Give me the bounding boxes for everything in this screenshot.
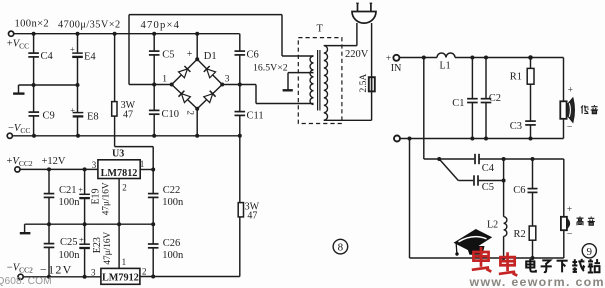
node -Vcc rail junctions xyxy=(32,134,36,138)
svg-text:R1: R1 xyxy=(510,72,522,83)
node bridge vertices xyxy=(170,83,174,87)
svg-text:2: 2 xyxy=(142,267,147,277)
svg-text:+: + xyxy=(78,185,83,195)
label tweeter 高音 xyxy=(577,216,584,225)
svg-text:C22: C22 xyxy=(163,185,181,196)
svg-text:www. eeworm. com: www. eeworm. com xyxy=(469,275,605,288)
capacitor E8 xyxy=(73,112,84,114)
capacitor C1 xyxy=(467,98,478,100)
svg-text:3: 3 xyxy=(91,268,96,278)
inductor L2 xyxy=(503,159,505,217)
svg-text:L1: L1 xyxy=(440,61,451,72)
svg-text:8: 8 xyxy=(338,242,344,254)
wire crossover mid rail xyxy=(400,138,564,140)
svg-text:C9: C9 xyxy=(43,111,55,122)
wire -12V rail xyxy=(23,276,101,278)
svg-text:2: 2 xyxy=(186,111,196,116)
svg-text:IN: IN xyxy=(391,63,402,74)
svg-text:47μ/16V: 47μ/16V xyxy=(102,182,112,215)
wire 7912 input rail xyxy=(140,276,240,278)
watermark 虫虫 red xyxy=(472,247,491,272)
speaker tweeter xyxy=(563,159,565,217)
svg-text:+: + xyxy=(70,105,75,115)
resistor R2 xyxy=(529,226,536,240)
fuse 2.5A xyxy=(371,23,373,77)
resistor 3W 47 (bleeder, upper) xyxy=(114,34,116,102)
svg-text:1: 1 xyxy=(162,75,167,85)
svg-text:100n: 100n xyxy=(59,197,81,208)
svg-text:47: 47 xyxy=(123,110,133,121)
svg-text:C2: C2 xyxy=(489,93,501,104)
terminal +Vcc2 xyxy=(15,167,20,172)
svg-text:C4: C4 xyxy=(482,163,495,174)
wire secondary center tap xyxy=(288,72,314,74)
node figure number 9 xyxy=(582,244,596,258)
svg-text:C3: C3 xyxy=(510,121,522,132)
svg-text:C5: C5 xyxy=(162,50,174,61)
wire ground spur (filter midpoint) xyxy=(19,84,78,86)
wire +Vcc top rail xyxy=(14,33,240,35)
svg-text:1: 1 xyxy=(122,257,127,267)
svg-text:−: − xyxy=(567,229,573,240)
capacitor C11 xyxy=(235,111,246,113)
svg-text:1: 1 xyxy=(140,159,145,169)
svg-text:C6: C6 xyxy=(247,50,259,61)
capacitor C5 (crossover) xyxy=(473,175,475,185)
diode D1b (node3 to +) xyxy=(207,69,216,78)
svg-text:C10: C10 xyxy=(162,109,180,120)
terminal -Vcc xyxy=(7,133,12,138)
svg-text:LM7912: LM7912 xyxy=(102,273,139,284)
capacitor C3 xyxy=(525,120,536,122)
diode D1d (- to node3) xyxy=(204,94,213,103)
ground (filter midpoint) xyxy=(18,85,20,93)
svg-text:100n×2: 100n×2 xyxy=(15,19,50,30)
svg-text:−: − xyxy=(567,122,573,133)
wire bridge bottom to -Vcc rail xyxy=(196,109,198,136)
capacitor C22 xyxy=(148,193,159,195)
wire C21/C25 column xyxy=(48,169,50,193)
terminal IN- xyxy=(394,136,400,142)
svg-text:100n: 100n xyxy=(59,250,81,261)
svg-text:4700μ/35V×2: 4700μ/35V×2 xyxy=(58,20,121,31)
watermark 电子下载站 xyxy=(526,259,536,272)
svg-text:+12V: +12V xyxy=(42,156,66,167)
svg-text:E23: E23 xyxy=(92,237,103,253)
svg-text:47: 47 xyxy=(247,210,257,221)
wire AC input to node 1 xyxy=(129,84,172,86)
ground (regulator common) xyxy=(24,224,26,233)
transformer primary winding xyxy=(324,46,328,121)
svg-text:100n: 100n xyxy=(162,250,184,261)
svg-text:+: + xyxy=(568,85,573,95)
wire +12V rail xyxy=(20,168,98,170)
wire woofer return xyxy=(563,119,565,139)
capacitor C4 (crossover) xyxy=(474,154,476,164)
svg-text:+: + xyxy=(70,44,75,54)
transformer secondary winding 16.5Vx2 xyxy=(310,56,313,105)
capacitor C10 xyxy=(149,109,160,111)
wire 7812 ground pin xyxy=(118,179,120,269)
capacitor C6 xyxy=(235,50,246,52)
terminal IN+ xyxy=(393,55,399,61)
terminal -Vcc2 xyxy=(18,274,23,279)
svg-text:470p×4: 470p×4 xyxy=(141,20,181,31)
wire -Vcc rail xyxy=(12,135,240,137)
svg-text:2.5A: 2.5A xyxy=(359,74,369,93)
svg-text:Q608. COM: Q608. COM xyxy=(0,276,52,287)
svg-text:C4: C4 xyxy=(41,51,54,62)
wire node 3 to transformer secondary xyxy=(222,84,256,86)
svg-text:C21: C21 xyxy=(59,185,77,196)
capacitor C4 xyxy=(28,52,39,54)
svg-text:E8: E8 xyxy=(87,111,99,122)
regulator LM7912 xyxy=(101,268,140,284)
svg-text:U3: U3 xyxy=(112,149,124,160)
node figure number 8 xyxy=(333,239,348,254)
svg-text:220V: 220V xyxy=(345,49,369,60)
wire ground rail (regulators) xyxy=(25,223,155,225)
wire C5 branch xyxy=(439,159,458,181)
wire woofer feed xyxy=(563,58,565,102)
svg-text:C11: C11 xyxy=(247,110,264,121)
mains plug xyxy=(352,12,376,24)
svg-text:LM7812: LM7812 xyxy=(101,168,138,179)
capacitor E19 xyxy=(79,193,90,195)
svg-text:C5: C5 xyxy=(482,182,494,193)
wire tweeter feed line xyxy=(479,158,564,160)
svg-text:C26: C26 xyxy=(163,238,181,249)
svg-text:+: + xyxy=(187,49,193,60)
wire C6/C11 column xyxy=(239,34,241,51)
capacitor C25 xyxy=(44,243,55,245)
ground (secondary center tap) xyxy=(283,89,293,91)
bridge rectifier D1 frame xyxy=(172,59,223,109)
diode D1a (node1 to +) xyxy=(179,69,188,78)
inductor L1 xyxy=(437,53,455,58)
wire E19/E23 column xyxy=(84,169,86,194)
svg-text:C25: C25 xyxy=(60,237,78,248)
wire bridge top to +Vcc rail xyxy=(196,34,198,60)
wire C2 column xyxy=(485,58,487,99)
capacitor E4 xyxy=(72,52,83,54)
wire C4/C9 column xyxy=(33,34,35,53)
wire AC loop top (node1 feed) xyxy=(128,15,130,85)
wire C22/C26 column xyxy=(152,170,154,194)
wire primary top to plug xyxy=(324,45,357,47)
svg-text:+: + xyxy=(567,205,572,215)
watermark graduation cap logo xyxy=(454,229,493,251)
svg-text:100n: 100n xyxy=(162,197,184,208)
transformer T dashed box xyxy=(298,38,342,124)
svg-text:3: 3 xyxy=(225,75,230,85)
svg-text:E4: E4 xyxy=(84,52,96,63)
resistor R1 xyxy=(530,58,532,69)
label woofer 低音 xyxy=(581,105,588,113)
node top rail junctions xyxy=(422,56,426,60)
wire crossover top rail xyxy=(400,57,437,59)
svg-text:E19: E19 xyxy=(91,188,102,204)
svg-text:C6: C6 xyxy=(513,185,525,196)
diode D1c (- to node1) xyxy=(182,94,191,103)
node +Vcc rail junctions xyxy=(32,32,36,36)
capacitor C2 xyxy=(481,98,492,100)
terminal +Vcc xyxy=(9,31,14,36)
svg-text:C1: C1 xyxy=(452,98,464,109)
speaker woofer xyxy=(560,101,566,119)
wire E4/E8 column xyxy=(77,34,79,53)
wire 7812 input from +Vcc via 3W47 xyxy=(115,146,154,148)
svg-text:L2: L2 xyxy=(487,220,498,231)
resistor 3W 47 (lower) with feed column xyxy=(239,136,241,203)
wire primary bottom xyxy=(324,119,372,121)
svg-text:3: 3 xyxy=(92,160,97,170)
capacitor C6 (crossover) xyxy=(532,159,534,189)
wire C1 column xyxy=(471,58,473,99)
svg-text:16.5V×2: 16.5V×2 xyxy=(253,63,288,74)
capacitor C5 xyxy=(149,50,160,52)
wire C5/C10 column xyxy=(153,34,155,51)
svg-text:2: 2 xyxy=(122,183,127,193)
transformer core xyxy=(317,50,319,111)
wire high-pass tap xyxy=(423,58,425,160)
svg-text:9: 9 xyxy=(587,246,593,258)
wire tweeter return / bottom rail xyxy=(563,230,565,258)
svg-text:+: + xyxy=(79,235,84,245)
capacitor C21 xyxy=(44,193,55,195)
capacitor C9 xyxy=(29,111,40,113)
svg-text:−12V: −12V xyxy=(40,262,73,276)
svg-text:T: T xyxy=(317,24,324,35)
svg-text:D1: D1 xyxy=(204,51,217,62)
capacitor C26 xyxy=(148,243,159,245)
svg-text:R2: R2 xyxy=(514,229,526,240)
capacitor E23 xyxy=(79,243,90,245)
svg-text:47μ/16V: 47μ/16V xyxy=(103,231,113,264)
node midpoint junctions xyxy=(32,83,36,87)
node AC1/AC2 junctions xyxy=(152,83,156,87)
